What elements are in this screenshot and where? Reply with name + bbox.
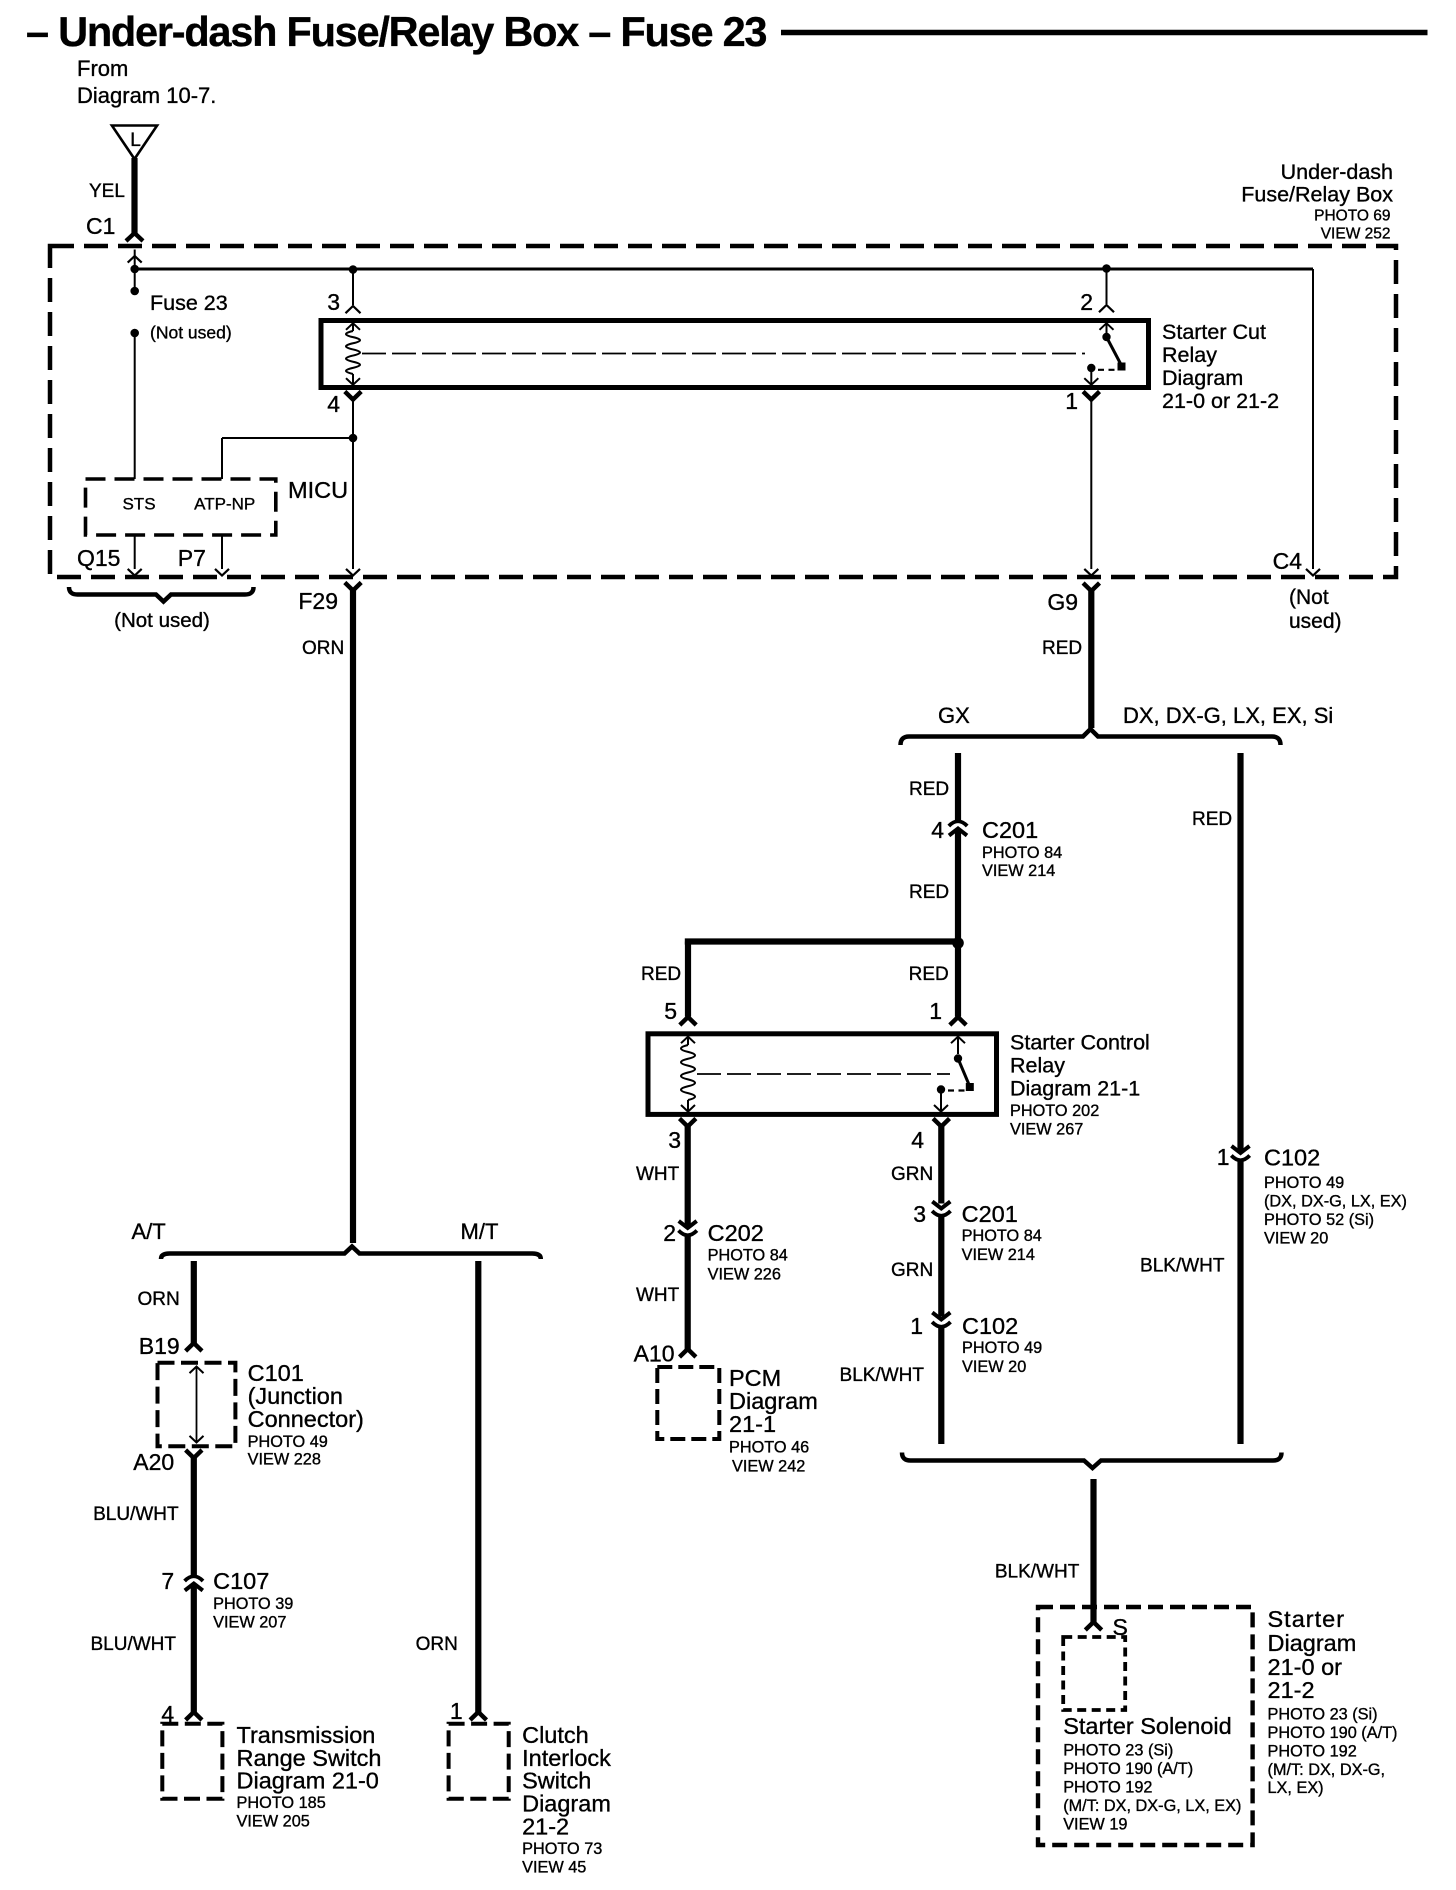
svg-text:2: 2 bbox=[1080, 289, 1093, 315]
svg-text:WHT: WHT bbox=[636, 1164, 680, 1185]
svg-text:C102: C102 bbox=[962, 1313, 1018, 1339]
svg-text:Starter Solenoid: Starter Solenoid bbox=[1063, 1713, 1232, 1739]
svg-text:GRN: GRN bbox=[891, 1260, 933, 1281]
svg-text:A20: A20 bbox=[133, 1449, 174, 1475]
svg-text:From: From bbox=[77, 56, 128, 81]
svg-text:Diagram 21-1: Diagram 21-1 bbox=[1010, 1077, 1140, 1101]
svg-text:VIEW 207: VIEW 207 bbox=[213, 1613, 286, 1631]
svg-text:21-1: 21-1 bbox=[729, 1411, 776, 1437]
svg-text:PHOTO 84: PHOTO 84 bbox=[962, 1227, 1042, 1245]
svg-text:PHOTO 192: PHOTO 192 bbox=[1063, 1779, 1152, 1797]
svg-text:PHOTO 190 (A/T): PHOTO 190 (A/T) bbox=[1268, 1724, 1398, 1742]
svg-text:RED: RED bbox=[641, 964, 681, 985]
svg-text:F29: F29 bbox=[298, 588, 338, 614]
svg-text:VIEW 20: VIEW 20 bbox=[962, 1358, 1026, 1376]
svg-text:C1: C1 bbox=[86, 213, 115, 239]
svg-text:RED: RED bbox=[1192, 809, 1232, 830]
svg-text:(M/T: DX, DX-G,: (M/T: DX, DX-G, bbox=[1268, 1761, 1386, 1779]
svg-text:ORN: ORN bbox=[416, 1634, 458, 1655]
svg-text:21-2: 21-2 bbox=[522, 1814, 569, 1840]
svg-text:L: L bbox=[130, 130, 141, 151]
svg-text:RED: RED bbox=[909, 882, 949, 903]
svg-text:VIEW 214: VIEW 214 bbox=[982, 862, 1055, 880]
svg-text:RED: RED bbox=[909, 964, 949, 985]
svg-text:PHOTO 46: PHOTO 46 bbox=[729, 1439, 809, 1457]
svg-text:Diagram: Diagram bbox=[1268, 1630, 1357, 1656]
svg-text:P7: P7 bbox=[178, 545, 206, 571]
svg-text:1: 1 bbox=[450, 1698, 463, 1724]
svg-text:M/T: M/T bbox=[461, 1219, 499, 1244]
svg-text:4: 4 bbox=[931, 817, 944, 843]
svg-text:A/T: A/T bbox=[132, 1219, 166, 1244]
svg-text:2: 2 bbox=[663, 1220, 676, 1246]
svg-text:3: 3 bbox=[668, 1127, 681, 1153]
svg-text:Diagram 21-0: Diagram 21-0 bbox=[237, 1768, 379, 1794]
svg-text:A10: A10 bbox=[634, 1341, 675, 1367]
svg-text:C107: C107 bbox=[213, 1568, 269, 1594]
svg-text:VIEW 45: VIEW 45 bbox=[522, 1859, 586, 1877]
svg-text:PHOTO 23 (Si): PHOTO 23 (Si) bbox=[1268, 1706, 1378, 1724]
svg-text:Starter Control: Starter Control bbox=[1010, 1031, 1150, 1055]
svg-text:MICU: MICU bbox=[288, 477, 348, 503]
svg-text:C202: C202 bbox=[708, 1220, 764, 1246]
svg-text:PHOTO 49: PHOTO 49 bbox=[962, 1339, 1042, 1357]
svg-text:VIEW 242: VIEW 242 bbox=[732, 1458, 805, 1476]
svg-text:PHOTO 202: PHOTO 202 bbox=[1010, 1102, 1099, 1120]
svg-text:PHOTO 23 (Si): PHOTO 23 (Si) bbox=[1063, 1742, 1173, 1760]
svg-text:PHOTO 190 (A/T): PHOTO 190 (A/T) bbox=[1063, 1760, 1193, 1778]
svg-text:Relay: Relay bbox=[1162, 343, 1217, 367]
svg-text:Relay: Relay bbox=[1010, 1054, 1065, 1078]
svg-text:BLU/WHT: BLU/WHT bbox=[93, 1504, 179, 1525]
svg-text:3: 3 bbox=[327, 289, 340, 315]
svg-text:ORN: ORN bbox=[302, 638, 344, 659]
svg-text:LX, EX): LX, EX) bbox=[1268, 1779, 1324, 1797]
svg-text:Diagram 10-7.: Diagram 10-7. bbox=[77, 83, 216, 108]
svg-text:VIEW 267: VIEW 267 bbox=[1010, 1121, 1083, 1139]
svg-text:GX: GX bbox=[938, 703, 970, 728]
svg-text:21-2: 21-2 bbox=[1268, 1677, 1315, 1703]
svg-text:RED: RED bbox=[1042, 638, 1082, 659]
svg-text:ORN: ORN bbox=[137, 1289, 179, 1310]
svg-text:Diagram: Diagram bbox=[1162, 366, 1243, 390]
svg-text:(DX, DX-G, LX, EX): (DX, DX-G, LX, EX) bbox=[1264, 1193, 1407, 1211]
svg-text:1: 1 bbox=[1065, 388, 1078, 414]
svg-text:G9: G9 bbox=[1047, 589, 1078, 615]
svg-text:BLK/WHT: BLK/WHT bbox=[1140, 1256, 1225, 1277]
svg-text:GRN: GRN bbox=[891, 1164, 933, 1185]
svg-text:1: 1 bbox=[929, 998, 942, 1024]
svg-text:B19: B19 bbox=[139, 1333, 180, 1359]
svg-text:21-0 or 21-2: 21-0 or 21-2 bbox=[1162, 389, 1279, 413]
svg-text:Fuse 23: Fuse 23 bbox=[150, 291, 228, 315]
svg-text:RED: RED bbox=[909, 779, 949, 800]
svg-text:– Under-dash Fuse/Relay Box –: – Under-dash Fuse/Relay Box – Fuse 23 bbox=[26, 8, 766, 55]
svg-text:DX, DX-G, LX, EX, Si: DX, DX-G, LX, EX, Si bbox=[1123, 703, 1333, 728]
svg-text:Connector): Connector) bbox=[248, 1406, 364, 1432]
svg-text:4: 4 bbox=[911, 1127, 924, 1153]
svg-text:1: 1 bbox=[910, 1313, 923, 1339]
svg-text:Under-dash: Under-dash bbox=[1281, 160, 1393, 184]
svg-text:7: 7 bbox=[161, 1568, 174, 1594]
svg-text:VIEW 226: VIEW 226 bbox=[708, 1266, 781, 1284]
svg-text:PHOTO 192: PHOTO 192 bbox=[1268, 1743, 1357, 1761]
svg-text:Starter: Starter bbox=[1268, 1606, 1346, 1632]
svg-text:Starter Cut: Starter Cut bbox=[1162, 320, 1266, 344]
svg-text:C102: C102 bbox=[1264, 1145, 1320, 1171]
svg-text:(Not: (Not bbox=[1289, 586, 1329, 609]
svg-text:VIEW 205: VIEW 205 bbox=[237, 1812, 310, 1830]
svg-text:PHOTO 39: PHOTO 39 bbox=[213, 1595, 293, 1613]
svg-text:PHOTO 185: PHOTO 185 bbox=[237, 1794, 326, 1812]
svg-text:PHOTO 49: PHOTO 49 bbox=[1264, 1174, 1344, 1192]
svg-text:VIEW 214: VIEW 214 bbox=[962, 1246, 1035, 1264]
svg-text:PHOTO 84: PHOTO 84 bbox=[982, 844, 1062, 862]
svg-text:5: 5 bbox=[664, 998, 677, 1024]
svg-text:ATP-NP: ATP-NP bbox=[194, 495, 255, 514]
svg-text:VIEW 19: VIEW 19 bbox=[1063, 1816, 1127, 1834]
svg-text:PHOTO 49: PHOTO 49 bbox=[248, 1433, 328, 1451]
svg-text:used): used) bbox=[1289, 610, 1342, 633]
svg-text:3: 3 bbox=[913, 1201, 926, 1227]
svg-text:(M/T: DX, DX-G, LX, EX): (M/T: DX, DX-G, LX, EX) bbox=[1063, 1797, 1241, 1815]
svg-text:1: 1 bbox=[1217, 1144, 1230, 1170]
svg-text:BLU/WHT: BLU/WHT bbox=[91, 1634, 177, 1655]
svg-text:Fuse/Relay Box: Fuse/Relay Box bbox=[1241, 183, 1393, 207]
svg-text:(Not used): (Not used) bbox=[150, 323, 232, 343]
svg-text:YEL: YEL bbox=[89, 181, 125, 202]
svg-text:C201: C201 bbox=[982, 817, 1038, 843]
svg-text:4: 4 bbox=[327, 391, 340, 417]
svg-text:PHOTO 69: PHOTO 69 bbox=[1314, 208, 1390, 225]
svg-text:PHOTO 52 (Si): PHOTO 52 (Si) bbox=[1264, 1211, 1374, 1229]
svg-text:(Not used): (Not used) bbox=[114, 609, 210, 632]
svg-text:C4: C4 bbox=[1273, 548, 1303, 574]
svg-text:PHOTO 84: PHOTO 84 bbox=[708, 1247, 788, 1265]
svg-text:WHT: WHT bbox=[636, 1285, 680, 1306]
svg-text:Q15: Q15 bbox=[77, 545, 120, 571]
svg-text:VIEW 228: VIEW 228 bbox=[248, 1451, 321, 1469]
svg-text:STS: STS bbox=[122, 495, 155, 514]
svg-text:BLK/WHT: BLK/WHT bbox=[995, 1562, 1080, 1583]
svg-text:BLK/WHT: BLK/WHT bbox=[840, 1365, 925, 1386]
svg-text:C201: C201 bbox=[962, 1201, 1018, 1227]
svg-text:PHOTO 73: PHOTO 73 bbox=[522, 1840, 602, 1858]
svg-text:VIEW 20: VIEW 20 bbox=[1264, 1230, 1328, 1248]
svg-text:VIEW 252: VIEW 252 bbox=[1321, 226, 1391, 243]
